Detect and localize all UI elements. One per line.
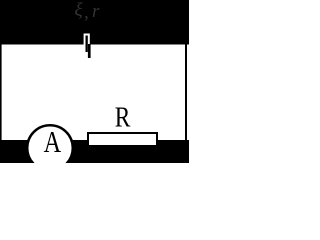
svg-text:ξ,r: ξ,r [75,0,101,23]
top black band (contains top wire of circuit) [0,0,189,45]
battery short thick plate [88,44,91,58]
bottom black band (contains bottom wire of circuit) [0,140,189,163]
svg-text:A: A [44,125,62,159]
battery cell white gap (notch in top band) [84,34,90,46]
ammeter A (circle) [27,125,73,171]
left wire [0,44,2,140]
white background [0,0,189,163]
svg-text:R: R [115,103,131,134]
right wire [185,44,187,140]
battery long thin plate [86,36,88,53]
resistor R (box) [88,133,157,146]
